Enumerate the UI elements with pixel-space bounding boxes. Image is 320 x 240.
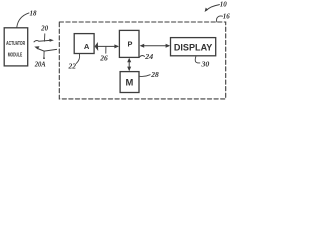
signal arrow 20 xyxy=(34,40,50,42)
leader for 28 xyxy=(140,75,151,77)
svg-text:20: 20 xyxy=(40,25,49,33)
leader for 22 xyxy=(76,54,79,63)
leader for 24 xyxy=(140,56,145,57)
leader arrow for 10 xyxy=(206,5,219,11)
svg-text:18: 18 xyxy=(30,9,38,17)
leader tick for 26 xyxy=(105,47,107,53)
svg-text:30: 30 xyxy=(201,59,210,68)
svg-text:24: 24 xyxy=(144,52,153,61)
box M xyxy=(120,72,139,93)
leader for 16 xyxy=(217,16,223,22)
svg-text:A: A xyxy=(84,42,90,51)
svg-text:M: M xyxy=(125,77,133,88)
box DISPLAY xyxy=(171,38,216,56)
leader for 18 xyxy=(17,13,29,27)
svg-text:10: 10 xyxy=(220,0,228,8)
svg-text:28: 28 xyxy=(150,70,159,79)
box P xyxy=(119,30,139,57)
arrow P to M (double headed) xyxy=(128,60,130,70)
signal arrow 20A xyxy=(37,48,56,51)
dashed box 16 xyxy=(59,22,225,99)
arrow A to P (double headed) xyxy=(97,45,118,47)
box actuator module xyxy=(4,28,28,66)
svg-text:22: 22 xyxy=(67,61,76,70)
svg-text:P: P xyxy=(128,39,133,48)
svg-text:DISPLAY: DISPLAY xyxy=(174,42,213,52)
svg-text:26: 26 xyxy=(99,54,108,63)
svg-text:MODULE: MODULE xyxy=(8,52,23,58)
leader for 30 xyxy=(195,56,200,63)
svg-text:ACTUATOR: ACTUATOR xyxy=(6,41,25,47)
svg-text:16: 16 xyxy=(223,13,231,21)
svg-text:20A: 20A xyxy=(34,59,46,68)
arrow P to DISPLAY (double headed) xyxy=(142,45,169,47)
box A xyxy=(74,34,94,54)
